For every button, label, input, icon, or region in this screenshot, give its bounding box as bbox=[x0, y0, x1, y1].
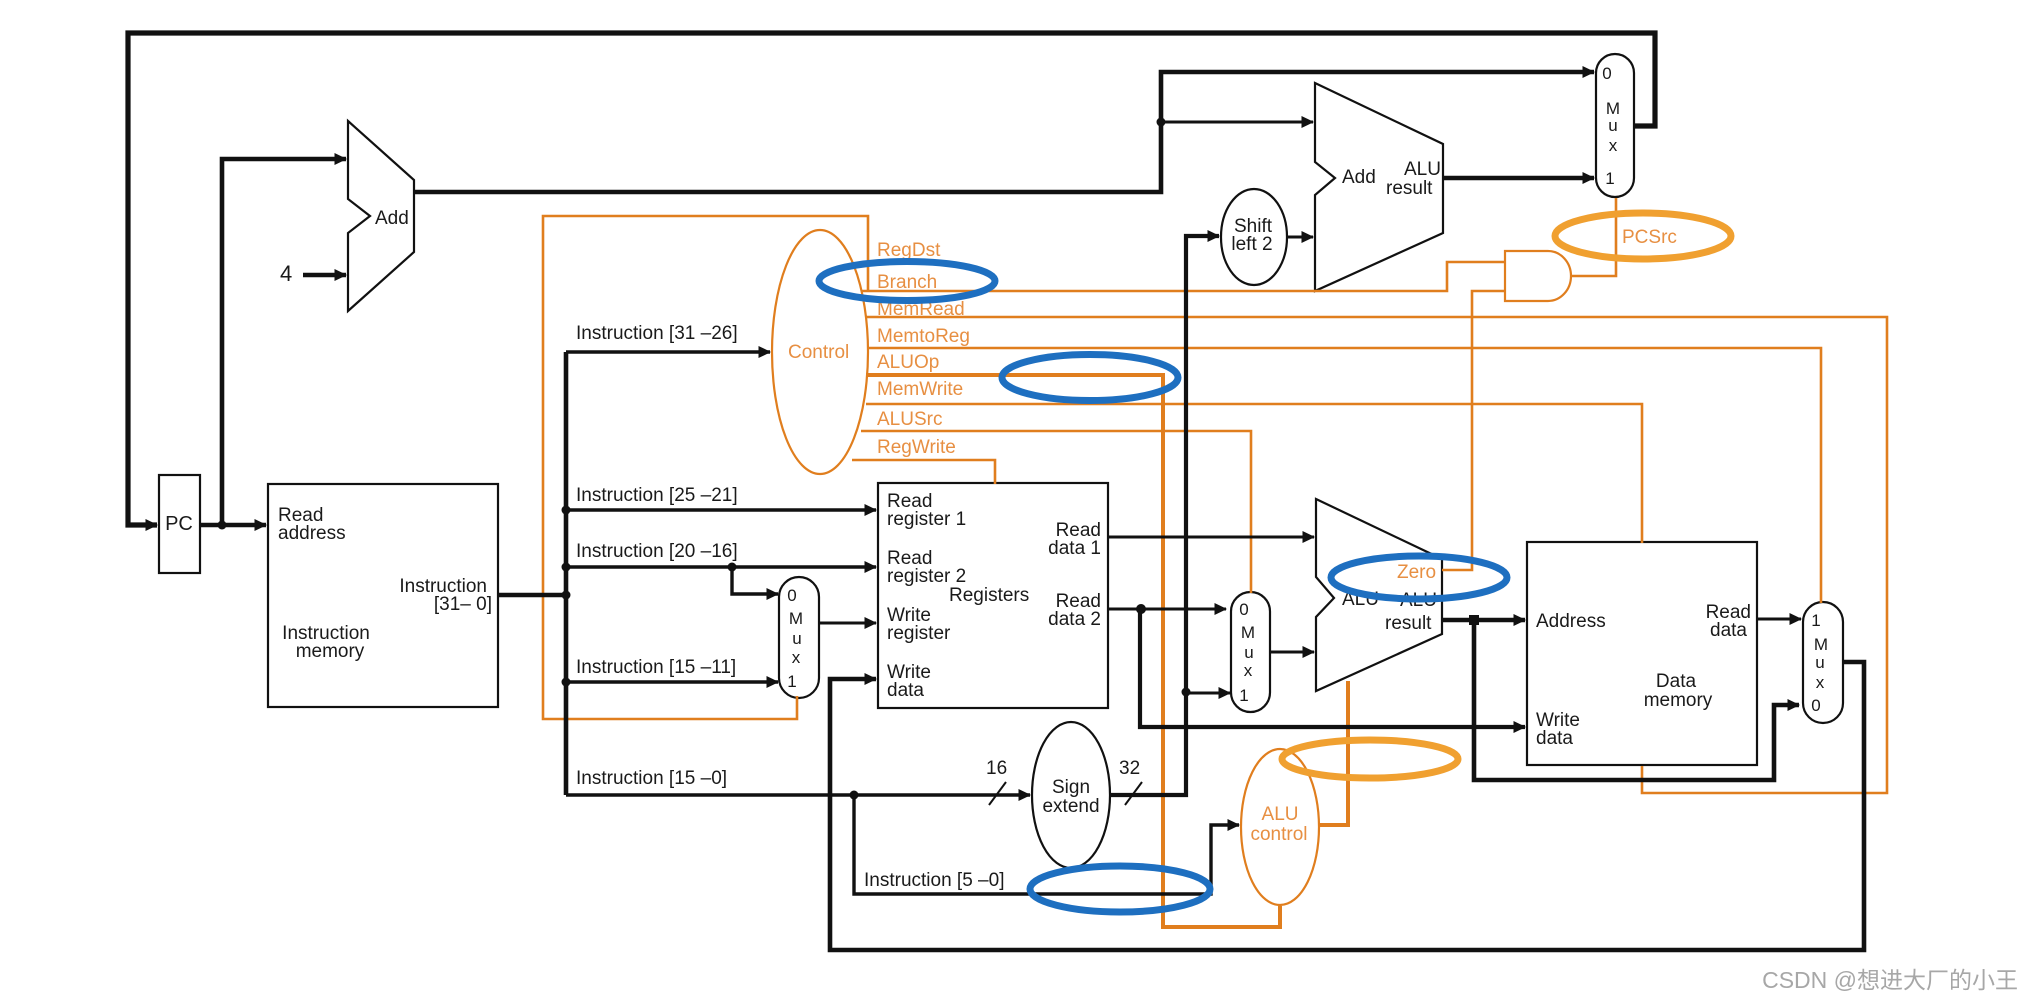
node instruction[25-21] tap bbox=[562, 506, 571, 515]
wire mux output to write register bbox=[820, 622, 876, 625]
wire PC+4 adder output to top mux input 0 bbox=[415, 72, 1594, 192]
svg-text:1: 1 bbox=[1811, 611, 1820, 630]
wire MemtoReg to right mux select bbox=[868, 348, 1821, 603]
svg-text:0: 0 bbox=[1239, 600, 1248, 619]
svg-text:[31– 0]: [31– 0] bbox=[434, 594, 492, 615]
wire data memory read data to right mux input 1 bbox=[1757, 618, 1801, 621]
wire RegDst (routed around left to mux) bbox=[543, 216, 868, 719]
svg-text:1: 1 bbox=[1239, 686, 1248, 705]
wire ALUOp to ALU control bbox=[866, 375, 1280, 927]
svg-text:x: x bbox=[1609, 136, 1618, 155]
label mux MemtoReg pins bbox=[1811, 611, 1828, 715]
svg-text:Control: Control bbox=[788, 342, 849, 363]
svg-text:0: 0 bbox=[1602, 64, 1611, 83]
mux PCSrc (top right) bbox=[1596, 54, 1634, 197]
svg-text:Sign: Sign bbox=[1052, 777, 1090, 798]
svg-text:ALU: ALU bbox=[1262, 804, 1299, 825]
svg-text:Address: Address bbox=[1536, 611, 1606, 632]
svg-text:data: data bbox=[1536, 728, 1573, 749]
slash 32 bits bbox=[1125, 782, 1142, 805]
svg-text:Data: Data bbox=[1656, 671, 1697, 692]
svg-text:x: x bbox=[1816, 673, 1825, 692]
wire read data 1 to ALU bbox=[1108, 536, 1314, 539]
svg-text:ALU: ALU bbox=[1404, 159, 1441, 180]
node instruction bus entry bbox=[562, 591, 571, 600]
ALU control ellipse bbox=[1241, 749, 1319, 905]
svg-text:Zero: Zero bbox=[1397, 562, 1436, 583]
wire ALUSrc mux output to ALU bbox=[1271, 651, 1314, 654]
svg-text:ALUOp: ALUOp bbox=[877, 352, 939, 373]
svg-text:u: u bbox=[792, 629, 801, 648]
svg-text:Branch: Branch bbox=[877, 272, 937, 293]
wire branch adder result to top mux input 1 bbox=[1443, 176, 1594, 181]
wire sign extend branch to ALUSrc mux input 1 bbox=[1186, 692, 1230, 695]
svg-text:16: 16 bbox=[986, 758, 1007, 779]
wire write back loop to registers write data bbox=[830, 662, 1864, 950]
wire PC to instruction memory read address bbox=[200, 523, 266, 528]
svg-text:data 1: data 1 bbox=[1048, 538, 1101, 559]
svg-text:1: 1 bbox=[787, 672, 796, 691]
svg-text:PC: PC bbox=[165, 513, 193, 535]
svg-text:0: 0 bbox=[1811, 696, 1820, 715]
svg-text:1: 1 bbox=[1605, 169, 1614, 188]
adder Add (branch target) bbox=[1315, 83, 1443, 291]
registers file bbox=[878, 483, 1108, 708]
svg-text:MemtoReg: MemtoReg bbox=[877, 326, 970, 347]
svg-text:M: M bbox=[789, 609, 803, 628]
register PC bbox=[159, 475, 200, 573]
wire instruction[15-11] to mux input 1 bbox=[566, 680, 778, 683]
svg-text:control: control bbox=[1250, 824, 1307, 845]
svg-text:4: 4 bbox=[280, 261, 292, 286]
svg-text:Add: Add bbox=[375, 208, 409, 229]
wire sign extend output up to shift left 2 bbox=[1110, 236, 1219, 795]
svg-text:PCSrc: PCSrc bbox=[1622, 227, 1677, 248]
svg-text:x: x bbox=[792, 648, 801, 667]
svg-text:u: u bbox=[1244, 643, 1253, 662]
svg-text:x: x bbox=[1244, 661, 1253, 680]
highlight blue ellipse Instruction[5-0] bbox=[1030, 866, 1210, 912]
wire MemWrite to data memory top bbox=[866, 404, 1642, 543]
svg-text:M: M bbox=[1814, 635, 1828, 654]
node instruction[15-0] split bbox=[850, 791, 859, 800]
svg-text:CSDN @想进大厂的小王: CSDN @想进大厂的小王 bbox=[1762, 967, 2018, 993]
svg-text:data: data bbox=[1710, 620, 1747, 641]
wire read data 2 branch to data memory write data bbox=[1140, 609, 1525, 727]
highlight blue ellipse Zero bbox=[1331, 556, 1507, 599]
svg-text:RegDst: RegDst bbox=[877, 240, 941, 261]
node PC output split bbox=[218, 521, 227, 530]
slash 16 bits bbox=[989, 782, 1006, 805]
wire instruction[20-16] to read register 2 bbox=[566, 565, 876, 568]
adder Add (PC+4) bbox=[348, 121, 414, 311]
node instruction[15-11] tap bbox=[562, 678, 571, 687]
svg-text:Instruction [5 –0]: Instruction [5 –0] bbox=[864, 870, 1004, 891]
wire instruction bus vertical bbox=[564, 352, 569, 795]
wire ALU result to data memory address bbox=[1442, 618, 1525, 623]
svg-text:Registers: Registers bbox=[949, 585, 1029, 606]
label mux PCSrc pins bbox=[1602, 64, 1620, 188]
wire PC feedback loop (mux output to PC) bbox=[128, 33, 1655, 525]
wire read data 2 to ALUSrc mux input 0 bbox=[1108, 608, 1226, 611]
mux RegDst (write register) bbox=[779, 577, 819, 698]
wire instruction[5-0] to ALU control bbox=[854, 795, 1239, 894]
wire instruction[25-21] to read register 1 bbox=[566, 508, 876, 511]
svg-text:u: u bbox=[1815, 653, 1824, 672]
wire MemRead to data memory bottom bbox=[866, 317, 1887, 793]
node ALU result split bbox=[1469, 615, 1479, 625]
highlight blue ellipse ALUOp line bbox=[1002, 355, 1178, 401]
node sign extend output split bbox=[1182, 688, 1191, 697]
shift left 2 ellipse bbox=[1221, 189, 1287, 285]
BLACK WIRES bbox=[128, 33, 1864, 950]
svg-text:memory: memory bbox=[296, 641, 365, 662]
node instruction[20-16] split to mux bbox=[728, 563, 737, 572]
highlight orange ellipse PCSrc bbox=[1555, 213, 1731, 259]
highlight orange ellipse ALUOp to ALU control bbox=[1282, 740, 1458, 778]
mux MemtoReg bbox=[1803, 602, 1843, 723]
wire ALU control output to ALU bbox=[1319, 681, 1348, 825]
svg-text:result: result bbox=[1385, 613, 1432, 634]
wire RegWrite to registers top bbox=[852, 460, 995, 484]
svg-text:register 2: register 2 bbox=[887, 566, 966, 587]
wire instruction[15-0] to sign extend bbox=[566, 793, 1030, 796]
wire ALUSrc to mux select bbox=[861, 431, 1251, 593]
svg-text:Add: Add bbox=[1342, 167, 1376, 188]
control unit ellipse bbox=[772, 230, 868, 474]
label mux ALUSrc pins bbox=[1239, 600, 1255, 705]
wire Zero to AND gate bbox=[1442, 291, 1504, 570]
svg-text:register 1: register 1 bbox=[887, 509, 966, 530]
mux ALUSrc bbox=[1231, 592, 1270, 712]
sign extend ellipse bbox=[1032, 722, 1110, 868]
wire AND output PCSrc to mux select bbox=[1571, 198, 1616, 276]
svg-text:0: 0 bbox=[787, 586, 796, 605]
svg-text:Instruction [25 –21]: Instruction [25 –21] bbox=[576, 485, 738, 506]
svg-text:address: address bbox=[278, 523, 346, 544]
svg-text:register: register bbox=[887, 623, 951, 644]
wire instruction[31-26] to control bbox=[566, 350, 770, 353]
data memory bbox=[1527, 542, 1757, 765]
wire constant 4 to adder bbox=[303, 273, 346, 278]
ORANGE WIRES bbox=[543, 198, 1887, 927]
instruction memory bbox=[268, 484, 498, 707]
svg-text:RegWrite: RegWrite bbox=[877, 437, 956, 458]
svg-text:extend: extend bbox=[1042, 796, 1099, 817]
node instruction[20-16] tap bbox=[562, 563, 571, 572]
svg-text:Instruction [31 –26]: Instruction [31 –26] bbox=[576, 323, 738, 344]
svg-text:MemWrite: MemWrite bbox=[877, 379, 963, 400]
ALU main bbox=[1316, 499, 1442, 691]
svg-text:Instruction [20 –16]: Instruction [20 –16] bbox=[576, 541, 738, 562]
svg-text:left 2: left 2 bbox=[1231, 234, 1272, 255]
highlight blue ellipse Branch bbox=[819, 262, 995, 301]
node PC+4 split bbox=[1157, 118, 1166, 127]
AND gate (branch) bbox=[1505, 251, 1571, 301]
svg-text:Instruction [15 –11]: Instruction [15 –11] bbox=[576, 657, 736, 678]
svg-text:data 2: data 2 bbox=[1048, 609, 1101, 630]
svg-text:ALUSrc: ALUSrc bbox=[877, 409, 942, 430]
svg-text:result: result bbox=[1386, 178, 1433, 199]
wire ALU result branch to right mux input 0 bbox=[1474, 620, 1799, 780]
svg-text:u: u bbox=[1608, 116, 1617, 135]
svg-text:Instruction [15 –0]: Instruction [15 –0] bbox=[576, 768, 727, 789]
wire shift left 2 to branch adder bbox=[1287, 236, 1313, 239]
wire instruction[20-16] branch to mux input 0 bbox=[732, 567, 778, 594]
wire PC to first adder bbox=[222, 159, 346, 525]
wire Branch to AND gate bbox=[861, 262, 1504, 291]
wire instruction bus from instruction memory bbox=[498, 593, 566, 598]
HIGHLIGHTS bbox=[819, 213, 1731, 912]
wire PC+4 to branch adder bbox=[1161, 121, 1313, 124]
svg-text:data: data bbox=[887, 680, 924, 701]
svg-text:memory: memory bbox=[1644, 690, 1713, 711]
label mux RegDst pins bbox=[787, 586, 803, 691]
svg-text:32: 32 bbox=[1119, 758, 1140, 779]
node read data 2 split bbox=[1136, 604, 1146, 614]
svg-text:M: M bbox=[1241, 623, 1255, 642]
